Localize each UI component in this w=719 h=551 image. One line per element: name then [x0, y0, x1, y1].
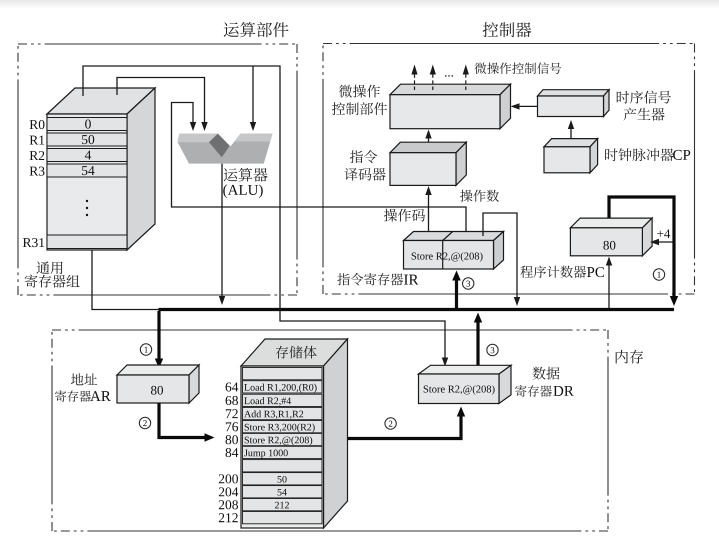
dashed boundary: arithmetic unit block 运算部件	[18, 43, 297, 45]
arrowhead into decoder bottom	[425, 186, 431, 195]
wire: register file bottom to bus (thin left bus segment)	[92, 250, 160, 310]
memory bank 存储体 3D box	[241, 339, 348, 528]
micro-operation control unit 微操作控制部件 3D box	[390, 84, 511, 129]
label: 时序信号产生器	[617, 91, 671, 104]
AR value 80	[151, 386, 163, 395]
wire: decoder to micro-op control unit	[428, 136, 430, 142]
circled 2 near AR	[139, 417, 150, 428]
thick wire: bus down into AR (path 1)	[157, 311, 160, 361]
register name label R31	[23, 238, 44, 247]
thick arrow: DR up to bus (path 3)	[476, 319, 479, 365]
register file 通用寄存器组 3D box	[47, 88, 155, 250]
wire: operand path from IR to ALU input	[172, 103, 467, 237]
arrowhead into ALU right input	[250, 122, 256, 131]
memory row contents (instructions and data)	[244, 384, 316, 393]
label: 微操作控制信号 (micro-op control signals)	[475, 62, 562, 74]
dashed boundary: memory block 内存	[52, 329, 608, 331]
DR contents text Store R2,@(208)	[424, 385, 495, 395]
IR contents text Store R2,@(208)	[412, 252, 483, 262]
label: 指令寄存器IR	[337, 273, 403, 285]
memory address labels 64-212	[226, 382, 239, 391]
thick wire: PC output loop to bus (path 1)	[609, 197, 674, 299]
arrowhead into ALU left input (port B)	[201, 122, 207, 131]
wire: IR address field up over to bus (address to memory)	[483, 213, 517, 298]
thick wire: AR to memory row 80 (path 2)	[159, 403, 207, 438]
label: +4 increment	[657, 229, 670, 238]
label: 控制器 (controller) title	[483, 22, 532, 37]
label: 程序计数器PC	[520, 266, 586, 278]
wire: ALU output down to internal bus	[221, 164, 223, 297]
circled 2 near DR	[385, 418, 396, 429]
circled 3 near DR	[487, 344, 498, 355]
timing signal generator 时序信号产生器 3D box	[538, 90, 610, 117]
arrowhead into micro-op unit bottom	[425, 130, 431, 139]
circled 1 near PC	[653, 269, 664, 280]
label: 运算器 (ALU)	[224, 168, 268, 182]
clock pulse 时钟脉冲器CP 3D box	[544, 139, 598, 173]
circled 3 near IR	[463, 278, 474, 289]
data register DR 3D box	[419, 365, 512, 403]
memory rows with addresses and contents	[243, 368, 323, 524]
program counter PC 3D box	[570, 218, 652, 256]
arrowhead ALU output into bus	[219, 296, 225, 305]
label: 通用寄存器组 (general register file)	[36, 261, 62, 274]
wire: bus up into PC bottom	[608, 263, 610, 308]
address register AR 3D box	[117, 365, 199, 403]
label: 微操作控制部件	[339, 85, 380, 98]
arrowhead into DR top	[442, 358, 448, 367]
arrowhead into ALU left input (operand)	[190, 122, 196, 131]
arrowhead into bus (memory address)	[514, 297, 520, 306]
PC value 80	[603, 241, 615, 250]
wire: timing generator to micro-op control unit	[517, 105, 538, 107]
label: 数据寄存器DR	[532, 367, 559, 380]
wire: register file read port A to ALU right input and down to DR	[83, 66, 445, 359]
wire: opcode from IR to decoder	[428, 192, 430, 236]
dashed boundary: controller block 控制器	[323, 43, 695, 45]
label: 操作码 (opcode)	[384, 209, 425, 222]
wire: tee from port A line down into ALU right wing	[252, 66, 254, 123]
label: 存储体 on top face	[276, 346, 317, 359]
wire: register file read port B to ALU left input	[117, 78, 205, 124]
wire: clock pulse to timing generator	[570, 127, 572, 139]
label: 运算部件 (arithmetic unit) title	[224, 22, 289, 37]
label: 指令译码器	[350, 150, 377, 163]
wire: +4 into PC right face	[656, 241, 674, 243]
arrowhead into micro-op unit right face	[511, 103, 520, 109]
thick arrow: bus into IR bottom (instruction fetch path 3)	[455, 277, 458, 309]
register values 0,50,4,54	[85, 120, 91, 129]
arrowhead into timing generator bottom	[568, 120, 574, 129]
label: 时钟脉冲器CP	[605, 148, 674, 161]
IR field divider	[442, 241, 444, 270]
main internal bus (thick horizontal)	[159, 308, 675, 311]
label: 地址寄存器AR	[71, 373, 97, 385]
register rows R0-R3 and R31 with values	[47, 118, 127, 249]
ellipsis between control signal arrows	[445, 75, 453, 77]
instruction register IR 3D box with two fields	[404, 232, 504, 270]
vertical ellipsis in register file	[86, 200, 88, 216]
register name labels R0-R3	[30, 120, 45, 129]
thick wire: memory to DR bottom (path 2)	[348, 413, 462, 439]
instruction decoder 指令译码器 3D box	[390, 142, 466, 185]
circled 1 near AR	[140, 344, 151, 355]
label: 内存 (memory)	[616, 350, 643, 364]
micro-operation control signal dashed arrows	[415, 74, 466, 90]
label: 操作数 (operand)	[460, 190, 499, 202]
ALU body 运算器	[178, 134, 273, 164]
